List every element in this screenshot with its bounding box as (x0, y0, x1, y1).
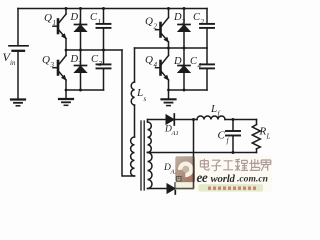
svg-text:Q: Q (145, 54, 153, 66)
svg-text:Q: Q (145, 16, 153, 28)
label Q2 (145, 16, 158, 31)
svg-text:C: C (218, 130, 226, 142)
label D3 (70, 54, 83, 68)
capacitor C2 (200, 9, 214, 49)
svg-text:4: 4 (182, 62, 186, 70)
label Q1 (44, 12, 56, 27)
inductor Ls (131, 48, 134, 137)
wire node A down-leg to primary bottom (122, 50, 135, 176)
svg-text:L: L (210, 103, 217, 115)
transformer T secondary winding (148, 120, 153, 189)
transistor Q4 (156, 48, 169, 90)
svg-text:s: s (144, 95, 147, 103)
transformer T primary winding (131, 137, 135, 176)
svg-text:1: 1 (53, 19, 57, 27)
label Lf (210, 103, 221, 118)
svg-text:Q: Q (42, 54, 50, 66)
wire right leg bottom rail (169, 89, 208, 91)
label V_in (3, 50, 16, 67)
svg-text:R: R (259, 126, 267, 138)
wire rectifier node down to DA2 (193, 120, 195, 189)
junction top rail at C1 (102, 7, 105, 10)
label C1 (90, 12, 101, 26)
wire DA2 cathode over watermark (175, 188, 193, 190)
svg-text:ee: ee (197, 170, 208, 185)
label Q4 (145, 54, 158, 69)
label C2 (193, 12, 205, 26)
wire right leg mid rail (node B) to series inductor (135, 47, 208, 49)
junction top rail at D2 (183, 7, 186, 10)
capacitor Cf (226, 120, 240, 153)
label C3 (91, 54, 103, 68)
svg-text:L: L (266, 133, 271, 141)
svg-text:2: 2 (182, 18, 186, 26)
junction top rail at Q2 (167, 7, 170, 10)
svg-text:4: 4 (154, 61, 158, 69)
diode D2 (178, 9, 190, 49)
diode D3 (75, 50, 87, 90)
transistor Q1 (53, 9, 66, 51)
svg-text:A1: A1 (171, 130, 179, 137)
watermark text line1 (CJK) (200, 159, 270, 171)
wire left leg bottom rail (66, 89, 104, 91)
junction mid rail at C1/C3 (102, 49, 105, 52)
watermark logo square (175, 156, 195, 190)
watermark eeworld background (196, 155, 272, 192)
inductor Lf (197, 116, 225, 119)
ground (left leg) (59, 90, 73, 105)
svg-text:3: 3 (77, 60, 82, 68)
diode D4 (178, 48, 190, 90)
svg-text:L: L (136, 87, 143, 99)
label RL (259, 126, 271, 141)
ground (right leg) (162, 90, 176, 106)
resistor RL (252, 120, 260, 153)
capacitor C4 (200, 48, 214, 90)
junction bottom rail at D4 (183, 89, 186, 92)
diode DA2 (167, 183, 175, 194)
junction top rail at D1 (79, 7, 82, 10)
svg-text:3: 3 (98, 60, 103, 68)
junction right mid rail at D2/D4 (183, 47, 186, 50)
wire top rail (18, 8, 207, 10)
wire left leg mid rail (node A) (66, 49, 122, 51)
watermark line3 green band (199, 184, 264, 191)
wire secondary top tap to rectifier (148, 119, 167, 121)
junction rectifier output node (192, 118, 195, 121)
svg-text:1: 1 (78, 18, 82, 26)
svg-text:3: 3 (50, 61, 55, 69)
capacitor C3 (97, 50, 111, 90)
junction bottom rail at D3 (79, 89, 82, 92)
label D2 (173, 12, 186, 26)
watermark text line2 (eeworld.com.cn) (197, 170, 268, 185)
wire DA2 cathode to vertical (175, 188, 193, 190)
junction mid rail at D1/D3 (79, 49, 82, 52)
svg-text:.com.cn: .com.cn (237, 174, 268, 185)
diode DA1 (166, 114, 174, 125)
junction at Cf top (232, 118, 235, 121)
wire Lf to load (225, 119, 257, 121)
junction right mid rail at Q2/Q4 (167, 47, 170, 50)
junction top rail at Q1 (65, 7, 68, 10)
label DA2 (163, 163, 178, 176)
label C4 (190, 56, 202, 70)
transistor Q3 (53, 50, 66, 90)
svg-text:2: 2 (201, 18, 205, 26)
transformer T core (141, 121, 144, 190)
label DA1 (164, 125, 179, 138)
wire rectifier vertical over watermark (193, 156, 195, 189)
ground (battery) (11, 100, 25, 106)
svg-text:1: 1 (98, 18, 102, 26)
transistor Q2 (156, 9, 169, 49)
svg-text:2: 2 (154, 23, 158, 31)
label D1 (70, 12, 82, 26)
svg-text:Q: Q (44, 12, 52, 24)
junction bottom rail at Q4 emitter/ground (167, 89, 170, 92)
label Q3 (42, 54, 55, 69)
junction bottom rail at Q3 emitter/ground (65, 89, 68, 92)
label Ls (136, 87, 147, 103)
label D4 (173, 56, 186, 70)
svg-text:4: 4 (198, 62, 202, 70)
svg-text:in: in (10, 59, 16, 67)
capacitor C1 (97, 9, 111, 51)
wire output bottom rail (center tap return) (148, 152, 257, 154)
wire secondary bottom tap to DA2 (148, 188, 168, 190)
diode D1 (75, 9, 87, 51)
junction at Cf bottom (232, 151, 235, 154)
svg-text:world: world (211, 173, 236, 185)
junction mid rail at Q1/Q3 (65, 49, 68, 52)
wire DA1 cathode to filter node (174, 119, 197, 121)
label Cf (218, 130, 230, 146)
battery V_in (9, 9, 28, 100)
